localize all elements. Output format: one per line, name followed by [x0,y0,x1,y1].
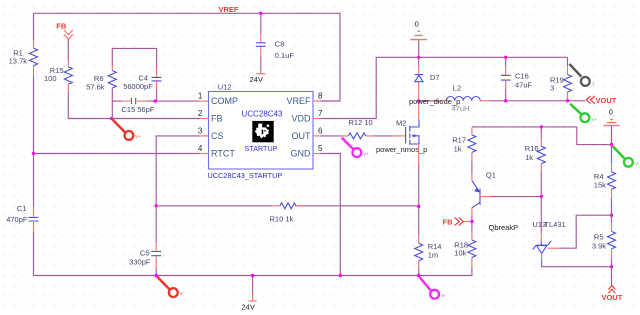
capacitor C4 [123,68,161,91]
junction 24V on rail [251,274,254,277]
wire C5 bottom to rail [155,268,157,276]
resistor R5 [592,215,616,258]
capacitor C15 [122,98,155,114]
resistor R18 [454,232,476,268]
junction R4/R5/ref [610,214,613,217]
svg-text:M2: M2 [396,119,406,128]
junction R19 bottom [566,99,569,102]
svg-text:57.6k: 57.6k [86,82,105,91]
shunt regulator U13 TL431 [532,197,565,261]
junction ground node right [610,143,613,146]
resistor R10 [270,203,304,224]
ground 0 top [410,20,427,58]
inductor L2 [442,84,489,114]
svg-text:47uH: 47uH [452,104,470,113]
svg-text:R10 1k: R10 1k [270,214,294,223]
svg-text:47uF: 47uF [515,81,533,90]
probe V- green right [613,146,640,167]
svg-text:GND: GND [291,149,312,159]
svg-text:C15 56pF: C15 56pF [122,105,155,114]
svg-text:V+: V+ [592,117,598,122]
pin 5 GND stub [313,144,323,153]
svg-text:24V: 24V [250,75,263,84]
svg-text:3: 3 [198,126,203,135]
svg-text:56000pF: 56000pF [123,82,153,91]
svg-text:V+: V+ [135,134,141,139]
capacitor C5 [129,243,161,269]
svg-text:1: 1 [198,92,203,101]
svg-text:V-: V- [441,293,446,298]
wire R10 row from C5 column to R14 column [156,205,419,207]
wire R6/C4 top loop [112,48,156,68]
node VOUT offpage marker bottom [601,267,622,303]
svg-text:FB: FB [443,217,454,226]
svg-text:OUT: OUT [292,131,312,141]
wire TL431 anode to VOUT node [542,261,612,267]
resistor R16 [525,127,546,171]
svg-text:I: I [593,81,594,86]
wire GND pin to bottom rail [321,154,341,276]
svg-text:V-: V- [635,161,640,166]
node VOUT offpage marker right [586,96,617,105]
svg-text:1k: 1k [454,145,462,154]
svg-text:COMP: COMP [211,96,238,106]
wire rail to R19 [419,57,568,66]
junction ground on top-right rail [417,56,420,59]
junction R16 top [540,125,543,128]
junction R10/R14/source [417,205,420,208]
junction R14 on bottom rail [417,274,420,277]
wire switch node to L2 [419,100,442,102]
wire COMP right segment to pin 1 [147,100,200,102]
wire M2 drain to switch node [418,101,420,119]
svg-text:UCC28C43_STARTUP: UCC28C43_STARTUP [208,171,283,180]
resistor R1 [9,41,38,76]
junction CS/R10/C5 [155,204,158,207]
svg-text:0: 0 [609,108,613,117]
wire C5 column [155,206,157,243]
wire COMP left segment [112,100,121,102]
svg-text:VREF: VREF [219,5,239,14]
resistor R17 [452,127,476,160]
svg-text:R5: R5 [594,233,604,242]
svg-text:3.9k: 3.9k [592,241,606,250]
wire C8 to 24V terminal [260,55,262,70]
wire bottom rail [34,275,472,277]
pin 6 OUT stub [313,127,323,136]
wire OUT pin to R12 [321,135,393,137]
probe V+ magenta at gate drive [342,138,369,157]
wire R14 bottom to rail [418,268,420,275]
probe V- red at bottom rail [157,277,184,297]
svg-text:power_nmos_p: power_nmos_p [376,145,427,154]
svg-text:VOUT: VOUT [601,293,622,302]
pin 4 RTCT stub [198,144,209,154]
wire R17/R16 rail to ground node [472,127,612,145]
wire R15 to FB pin 2 [68,92,199,119]
wire left column middle (R1 to C1) [33,76,35,207]
transistor M2 power_nmos_p [376,119,427,154]
wire R16 to Q1 base node [540,171,542,196]
svg-text:FB: FB [56,21,67,30]
svg-text:3: 3 [550,83,554,92]
probe V+ green at VOUT [570,104,598,122]
resistor R15 [44,60,72,92]
resistor R19 [550,66,572,101]
probe V+ red at FB node [113,120,141,140]
node FB offpage marker top-left [56,21,73,39]
svg-text:C8: C8 [275,40,285,49]
svg-text:V+: V+ [363,152,369,157]
svg-text:TL431: TL431 [544,220,565,229]
svg-text:C16: C16 [515,72,529,81]
svg-text:7: 7 [318,109,323,118]
ground 0 right [604,108,620,145]
node FB offpage marker at Q1 [443,217,472,226]
svg-text:UCC28C43: UCC28C43 [242,110,283,119]
junction switch node [417,99,420,102]
node 24V terminal bottom [242,276,257,312]
wire R5 bottom to VOUT node [611,258,613,267]
wire L2 to output node [489,100,586,102]
svg-text:VREF: VREF [286,96,311,106]
svg-text:L2: L2 [453,84,461,93]
svg-text:1m: 1m [428,250,438,259]
svg-text:U12: U12 [218,82,232,91]
diode D7 [415,57,440,101]
svg-text:Q1: Q1 [486,170,496,179]
probe I gray at R19 [569,64,593,86]
svg-text:2: 2 [198,109,203,118]
resistor R14 [415,235,442,268]
svg-text:13.7k: 13.7k [9,57,28,66]
wire FB marker to R15 [67,39,69,60]
svg-text:4: 4 [198,144,203,153]
svg-text:R17: R17 [452,136,466,145]
pin 1 COMP stub [198,92,209,102]
svg-text:0.1uF: 0.1uF [275,51,295,60]
wire VREF top rail and riser to pin 8 [34,13,341,101]
junction C8 on VREF rail [259,12,262,15]
svg-text:5: 5 [318,144,323,153]
probe V- magenta at bottom rail right [420,277,446,299]
wire CS pin to C5 column [156,136,199,206]
svg-text:STARTUP: STARTUP [245,144,278,153]
transistor Q1 QbreakP [472,170,518,232]
resistor R6 [86,66,116,91]
wire Q1 collector to FB node [471,208,473,216]
svg-text:330pF: 330pF [129,257,151,266]
svg-text:C1: C1 [17,204,27,213]
junction GND column on rail [339,274,342,277]
resistor R4 [594,145,616,198]
svg-text:8: 8 [318,92,323,101]
wire left column bottom (C1 to bottom rail) [33,232,35,276]
svg-text:100: 100 [44,74,57,83]
wire R17 to Q1 emitter [471,160,473,173]
svg-text:D7: D7 [430,73,440,82]
pin 8 VREF stub [313,92,323,101]
node 24V terminal under C8 [250,71,266,84]
svg-text:6: 6 [318,127,323,136]
wire R6 bottom to FB wire [111,88,113,119]
pin 2 FB stub [198,109,209,119]
pin 3 CS stub [198,126,209,136]
svg-text:R12 10: R12 10 [349,118,373,127]
svg-text:QbreakP: QbreakP [489,223,519,232]
svg-text:C5: C5 [140,249,150,258]
svg-text:C4: C4 [138,74,148,83]
capacitor C16 [501,57,533,101]
junction C16 bottom [504,99,507,102]
svg-text:CS: CS [211,131,224,141]
svg-text:V-: V- [180,291,185,296]
wire C4 bottom to COMP wire [156,90,158,102]
svg-text:24V: 24V [242,302,255,311]
pin 7 VDD stub [313,109,323,118]
wire TL431 ref to R4/R5 junction [548,247,560,249]
junction C16 top [504,56,507,59]
svg-text:VDD: VDD [291,114,311,124]
junction C4/COMP [154,99,157,102]
junction FB stub on collector column [470,220,473,223]
junction Q1 base / R16 / U13 [540,195,543,198]
junction R5/TL431 anode [610,265,613,268]
svg-text:RTCT: RTCT [211,149,235,159]
capacitor C1 [6,204,38,232]
svg-text:VOUT: VOUT [596,96,617,105]
wire RTCT pin to left column [34,153,200,155]
IC U12 UCC28C43 [208,82,314,180]
svg-text:1k: 1k [525,153,533,162]
wire VDD pin to top-right rail [321,57,419,118]
capacitor C8 [256,13,294,60]
wire Q1 base to R16 column [480,196,491,198]
svg-text:470pF: 470pF [6,215,28,224]
junction on FB wire under R6 [110,117,113,120]
resistor R12 [342,118,374,139]
svg-text:FB: FB [211,114,223,124]
svg-text:15k: 15k [594,180,606,189]
junction C5 on bottom rail [155,274,158,277]
wire R18 bottom to rail end [470,268,473,276]
svg-text:0: 0 [415,20,419,29]
wire M2 source to R14 column [418,144,420,165]
svg-text:10k: 10k [454,249,466,258]
wire left column top (rail to R1) [33,13,35,40]
wire R4 to R5 junction [611,198,613,216]
junction RTCT on left column [32,152,35,155]
